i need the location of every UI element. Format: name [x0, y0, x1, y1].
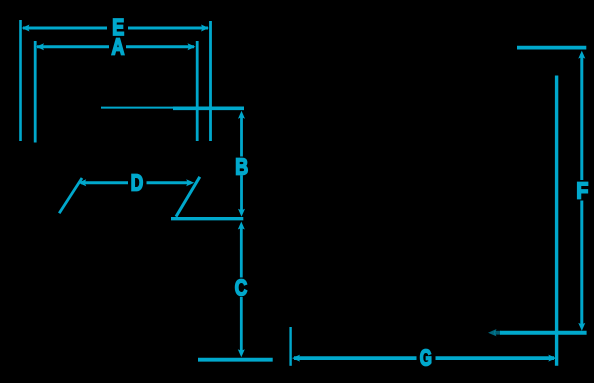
bottom baseline — [198, 358, 273, 362]
arrow F top — [578, 51, 585, 59]
svg-text:F: F — [576, 178, 588, 204]
dimension F line lower segment — [580, 201, 583, 328]
svg-text:G: G — [420, 346, 432, 372]
dimension E line left segment — [23, 27, 107, 30]
dimension G line right segment — [436, 356, 555, 360]
svg-text:D: D — [131, 171, 143, 196]
arrow F bottom — [578, 323, 585, 331]
arrow G right — [548, 355, 556, 362]
dimension B line upper segment — [240, 114, 243, 157]
arrow E left — [22, 25, 30, 32]
arrow B top — [238, 111, 245, 119]
arrow D right — [186, 179, 194, 186]
right long extension line — [555, 76, 558, 366]
arrow C top — [238, 222, 245, 230]
dimension A line left segment — [37, 45, 109, 48]
arrow E right — [201, 25, 209, 32]
mid baseline — [171, 217, 243, 220]
dimension D line left segment — [81, 181, 128, 184]
dimension C line upper segment — [240, 225, 243, 278]
arrow C bottom — [238, 349, 245, 357]
dimension B line lower segment — [240, 175, 243, 213]
dimension A extension line left — [34, 41, 37, 143]
arrow A right — [188, 43, 196, 50]
dimension A extension line right — [196, 41, 199, 141]
lower right extension line — [500, 331, 587, 335]
dimension E line right segment — [128, 27, 208, 30]
dimension A line right segment — [126, 45, 194, 48]
dimension D slanted extension left — [59, 178, 82, 213]
dimension B top extension line — [173, 107, 244, 111]
arrow B bottom — [238, 209, 245, 217]
faded arrow on lower right extension — [488, 329, 497, 336]
svg-text:C: C — [235, 276, 248, 301]
dimension F line upper segment — [580, 54, 583, 180]
object thin horizontal line — [101, 107, 177, 109]
top right extension line — [517, 46, 586, 50]
arrow A left — [36, 43, 44, 50]
dimension D line right segment — [147, 181, 192, 184]
dimension E extension line left — [19, 20, 22, 141]
svg-text:A: A — [112, 35, 125, 61]
dimension G line left segment — [294, 356, 417, 360]
dimension E extension line right — [209, 21, 212, 141]
dimension D slanted extension right — [176, 177, 200, 217]
dimension C line lower segment — [240, 297, 243, 353]
arrow G left — [292, 355, 300, 362]
arrow D left — [78, 179, 86, 186]
svg-text:B: B — [235, 154, 248, 180]
dimension G extension line left — [289, 327, 291, 366]
